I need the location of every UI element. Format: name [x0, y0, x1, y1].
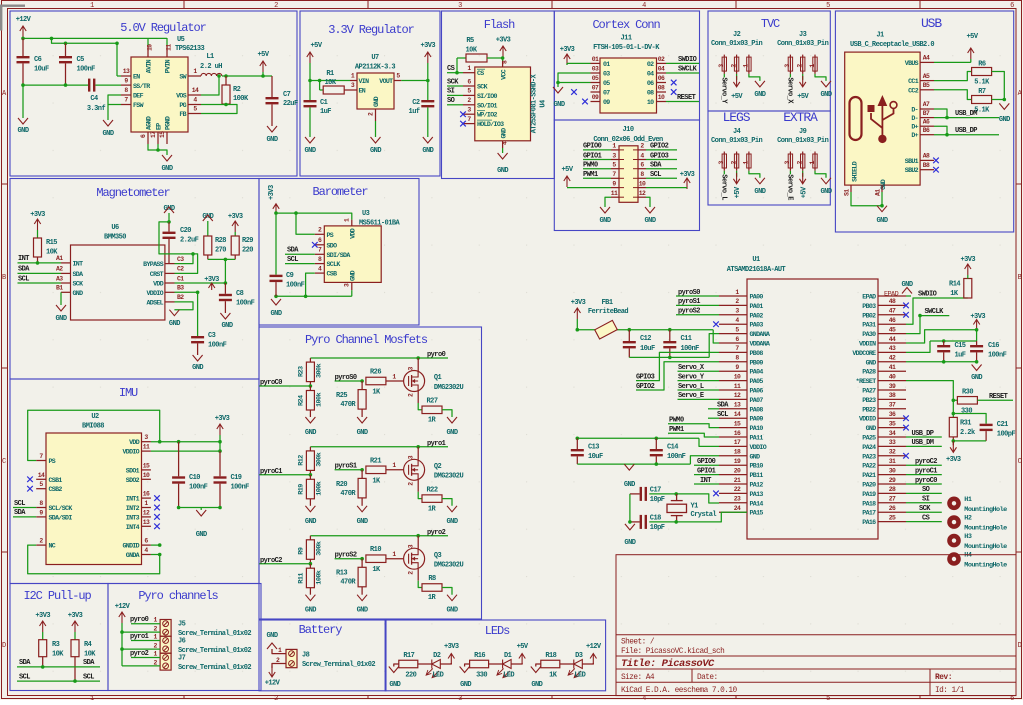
- svg-text:12: 12: [143, 509, 150, 516]
- svg-text:C13: C13: [588, 444, 599, 452]
- svg-text:C19: C19: [231, 474, 242, 482]
- junction VDDIN 3v3: [975, 328, 979, 332]
- svg-text:SWDIO: SWDIO: [918, 291, 937, 299]
- svg-text:Servo_E: Servo_E: [678, 392, 704, 400]
- junction R21 gate node: [360, 468, 364, 472]
- wire SI net: [447, 94, 463, 96]
- wire VDD rail imu: [151, 441, 220, 443]
- wire SDA net mag: [18, 272, 62, 274]
- svg-text:Servo_Y: Servo_Y: [678, 373, 705, 381]
- svg-text:SWCLK: SWCLK: [925, 308, 945, 316]
- svg-text:PA04: PA04: [750, 369, 764, 376]
- wire Servo net J3: [789, 74, 791, 78]
- resistor R13 470R: [361, 559, 363, 568]
- svg-text:R29: R29: [242, 237, 253, 245]
- pin 32 PA23 U1: [878, 455, 906, 457]
- svg-text:SDO2: SDO2: [126, 477, 140, 484]
- pin 42 GND U1: [878, 361, 906, 363]
- svg-text:16: 16: [143, 491, 150, 498]
- svg-text:GPIO0: GPIO0: [697, 458, 716, 466]
- section box I2C Pull-up: [10, 584, 108, 691]
- junction C20 top: [167, 220, 171, 224]
- wire PS branch: [296, 213, 315, 234]
- pin 34 PA25 U1: [878, 436, 906, 438]
- svg-text:06: 06: [647, 80, 654, 87]
- svg-text:GND: GND: [73, 290, 84, 297]
- svg-text:300k: 300k: [316, 452, 324, 467]
- resistor R31: [949, 417, 957, 437]
- svg-text:PA05: PA05: [750, 378, 764, 385]
- pin A5 CC1: [920, 80, 934, 82]
- transistor Q3 DMG2302U: [404, 548, 425, 569]
- pin 23 PA14 U1: [719, 502, 747, 504]
- pin 4 J10: [638, 159, 646, 161]
- wire xtal top to PA14 jog: [676, 494, 719, 503]
- svg-text:2.2 uH: 2.2 uH: [200, 63, 222, 71]
- capacitor C5: [65, 43, 67, 56]
- mounting hole H3: [947, 534, 961, 548]
- svg-text:+12V: +12V: [115, 603, 131, 611]
- wire U7 gnd: [375, 121, 377, 137]
- svg-text:R15: R15: [46, 239, 57, 247]
- wire +12V to J6 pin2: [122, 648, 160, 650]
- svg-text:Battery: Battery: [299, 623, 343, 637]
- svg-text:6: 6: [1010, 2, 1014, 10]
- ground GND imu caps: [196, 510, 206, 516]
- svg-text:15: 15: [159, 131, 166, 138]
- capacitor C17: [640, 487, 642, 501]
- svg-text:PA00: PA00: [750, 294, 764, 301]
- pin 7 FSW: [121, 104, 131, 106]
- IC U5 TPS62133: [131, 57, 188, 132]
- pin 37 PB22 U1: [878, 408, 906, 410]
- svg-text:2: 2: [274, 2, 278, 10]
- svg-text:AT25SF081-SSHD-X: AT25SF081-SSHD-X: [531, 73, 539, 133]
- wire GNDID GNDA join: [151, 544, 160, 546]
- svg-text:SS/TR: SS/TR: [133, 83, 150, 90]
- svg-text:+12V: +12V: [16, 16, 32, 24]
- svg-text:GND: GND: [866, 425, 877, 432]
- wire AVIN to rail: [147, 38, 149, 45]
- svg-text:R20: R20: [336, 481, 347, 489]
- wire GPIO0 J10: [583, 149, 611, 151]
- svg-text:PA12: PA12: [750, 482, 764, 489]
- svg-text:IMU: IMU: [119, 386, 138, 400]
- svg-text:INT2: INT2: [126, 505, 140, 512]
- svg-text:08: 08: [647, 90, 654, 97]
- wire VIN: [310, 80, 350, 82]
- svg-text:GNDA: GNDA: [126, 552, 140, 559]
- svg-text:GPIO2: GPIO2: [650, 143, 669, 151]
- svg-text:+5V: +5V: [258, 51, 270, 59]
- pin 11 J10: [611, 196, 619, 198]
- svg-text:PA19: PA19: [862, 491, 876, 498]
- svg-text:10K: 10K: [84, 651, 96, 659]
- power flag +5V D1: [519, 654, 525, 665]
- ground GND USB shield: [877, 206, 887, 212]
- pin 2 source Q1: [417, 391, 419, 403]
- svg-text:100pF: 100pF: [997, 431, 1016, 439]
- wire SCL i2c: [17, 680, 100, 682]
- svg-text:File: PicassoVC.kicad_sch: File: PicassoVC.kicad_sch: [621, 648, 724, 656]
- svg-text:GND: GND: [624, 481, 635, 489]
- wire R18 to D3: [560, 663, 574, 665]
- svg-text:10K: 10K: [52, 651, 64, 659]
- IC U7 AP2112K-3.3: [357, 73, 394, 109]
- wire R27 to gnd: [442, 410, 452, 417]
- wire PWM0 J10: [583, 168, 611, 170]
- svg-text:R5: R5: [466, 37, 474, 45]
- svg-text:SCL: SCL: [18, 275, 29, 283]
- ground GND J4: [749, 171, 760, 178]
- transistor Q2 DMG2302U: [404, 459, 425, 480]
- svg-text:pyroS0: pyroS0: [678, 289, 700, 297]
- svg-text:C15: C15: [955, 342, 966, 350]
- pin 17 VDDIO U1: [719, 445, 747, 447]
- pin 10 AVIN: [147, 45, 149, 57]
- svg-text:17: 17: [734, 439, 741, 446]
- svg-text:43: 43: [889, 345, 896, 352]
- wire gate to Q3: [386, 558, 403, 560]
- svg-text:EPAD: EPAD: [884, 291, 899, 299]
- svg-text:PGND: PGND: [165, 116, 172, 130]
- svg-text:10: 10: [639, 180, 646, 187]
- svg-text:TPS62133: TPS62133: [175, 45, 205, 53]
- svg-text:47: 47: [889, 308, 896, 315]
- svg-text:GND: GND: [531, 681, 542, 689]
- no-connect HOLD: [460, 121, 466, 127]
- svg-text:10: 10: [647, 99, 654, 106]
- svg-text:C3: C3: [177, 256, 184, 263]
- svg-text:+3V3: +3V3: [946, 456, 961, 464]
- svg-text:A3: A3: [56, 275, 63, 282]
- section box Pyro channels: [108, 584, 261, 691]
- pin C3 BYPASS: [165, 263, 175, 265]
- wire pyroC1 to PA21: [906, 474, 942, 476]
- svg-text:ADSEL: ADSEL: [146, 299, 163, 306]
- svg-text:U2: U2: [91, 413, 99, 421]
- svg-text:330: 330: [961, 408, 972, 416]
- wire DEF FSW to gnd: [108, 95, 121, 105]
- capacitor C14: [655, 438, 657, 449]
- svg-text:NC: NC: [49, 543, 56, 550]
- wire pyroS2 net: [335, 558, 363, 560]
- no-connect INT2: [154, 505, 160, 511]
- svg-text:PB09: PB09: [750, 359, 764, 366]
- svg-text:SDA: SDA: [717, 402, 729, 410]
- power +5V J2: [736, 74, 738, 80]
- pin 35 GND U1: [878, 427, 906, 429]
- svg-text:CRST: CRST: [150, 271, 164, 278]
- pin 8 DEF: [121, 94, 131, 96]
- capacitor C15: [943, 341, 945, 345]
- svg-text:GPIO1: GPIO1: [697, 467, 716, 475]
- svg-text:GND: GND: [754, 188, 765, 196]
- svg-text:3: 3: [458, 695, 462, 700]
- svg-text:09: 09: [592, 94, 599, 101]
- svg-text:14: 14: [192, 87, 199, 94]
- svg-text:GND: GND: [999, 116, 1010, 124]
- svg-text:SDO1: SDO1: [126, 467, 140, 474]
- pin 8 SCLK: [315, 263, 325, 265]
- svg-text:26: 26: [889, 505, 896, 512]
- wire +3V3 to pin10: [646, 187, 687, 189]
- pin 8 SCL/SCK IMU: [36, 507, 46, 509]
- svg-text:10uF: 10uF: [34, 66, 49, 74]
- svg-text:Servo_E: Servo_E: [786, 174, 794, 200]
- pin 06 J11: [657, 82, 667, 84]
- svg-text:15: 15: [734, 420, 741, 427]
- svg-text:46: 46: [889, 317, 896, 324]
- wire SCL net imu: [13, 507, 36, 509]
- connector J8 Screw_Terminal_01x02: [286, 649, 297, 667]
- wire CC2 to R7: [934, 90, 972, 100]
- svg-text:U1: U1: [752, 256, 760, 264]
- svg-text:D+: D+: [911, 132, 918, 139]
- pin 4 GNDA IMU: [142, 554, 151, 556]
- svg-text:PA31: PA31: [862, 322, 876, 329]
- ground GND under C6: [22, 85, 24, 118]
- svg-text:Y1: Y1: [691, 503, 699, 511]
- ground GND under R19: [305, 506, 315, 512]
- svg-text:GND: GND: [554, 101, 565, 109]
- svg-text:1: 1: [90, 2, 94, 10]
- pin 14 PA09 U1: [719, 417, 747, 419]
- pin 14 CSB1 IMU: [36, 478, 46, 480]
- wire SDA net imu: [13, 516, 36, 518]
- svg-text:+3V3: +3V3: [30, 211, 45, 219]
- svg-text:GPIO3: GPIO3: [636, 373, 655, 381]
- svg-text:+5V: +5V: [967, 33, 979, 41]
- svg-text:+3V3: +3V3: [970, 313, 985, 321]
- svg-text:GND: GND: [305, 147, 316, 155]
- no-connect PA13: [713, 491, 719, 497]
- svg-text:A2: A2: [56, 266, 63, 273]
- ground GND under R20: [357, 506, 367, 512]
- svg-text:SDA/SDI: SDA/SDI: [49, 514, 73, 521]
- pin 10 J10: [638, 187, 646, 189]
- pin 12 PA07 U1: [719, 398, 747, 400]
- junction Q2 drain: [416, 445, 420, 449]
- junction R9/R11: [309, 562, 313, 566]
- svg-text:SO: SO: [922, 486, 930, 494]
- svg-text:100nF: 100nF: [77, 66, 96, 74]
- junction C11 top: [668, 328, 672, 332]
- resistor R25 470R: [361, 381, 363, 390]
- section box TVC: [708, 11, 830, 111]
- svg-text:PB03: PB03: [862, 303, 876, 310]
- svg-text:100nF: 100nF: [667, 453, 686, 461]
- wire SCL to PA09: [708, 417, 719, 419]
- svg-text:45: 45: [889, 326, 896, 333]
- pin 1 PA00 U1: [719, 295, 747, 297]
- svg-text:C4: C4: [90, 95, 98, 103]
- ground symbol battery: [267, 643, 277, 649]
- svg-text:SBU2: SBU2: [905, 167, 919, 174]
- svg-text:C8: C8: [236, 290, 244, 298]
- wire VDDIO rail imu: [151, 450, 220, 452]
- svg-text:220: 220: [242, 247, 253, 255]
- ground GND under R24: [305, 417, 315, 423]
- capacitor C6: [22, 38, 24, 56]
- resistor R24 100k: [309, 386, 311, 391]
- svg-text:A6: A6: [923, 118, 930, 125]
- wire VDDIO to C3 cap: [197, 292, 199, 336]
- section box Barometer: [259, 179, 419, 326]
- svg-text:R3: R3: [52, 641, 60, 649]
- svg-text:SI/IO0: SI/IO0: [477, 93, 498, 100]
- svg-text:04: 04: [658, 66, 665, 73]
- svg-text:S1: S1: [844, 189, 851, 196]
- svg-text:D: D: [2, 642, 6, 650]
- svg-text:A5: A5: [923, 73, 930, 80]
- power flag +3V3 reset bottom: [950, 441, 956, 452]
- wire Servo net J4: [723, 171, 725, 175]
- wire rail second level: [52, 38, 118, 43]
- wire CS to PA16: [906, 521, 942, 523]
- svg-text:03: 03: [603, 71, 610, 78]
- svg-text:VDDCORE: VDDCORE: [852, 350, 876, 357]
- svg-text:VDDIO: VDDIO: [122, 449, 139, 456]
- svg-text:USB_DP: USB_DP: [955, 127, 977, 135]
- svg-text:B5: B5: [923, 82, 930, 89]
- wire CS net: [447, 72, 463, 74]
- ground GND under U4: [498, 153, 508, 159]
- pin B8 SBU2: [920, 169, 934, 171]
- junction VDD C8: [224, 281, 228, 285]
- power +5V J3: [802, 74, 804, 80]
- junction R12/R19: [309, 473, 313, 477]
- svg-text:+3V3: +3V3: [496, 37, 511, 45]
- svg-text:H3: H3: [964, 533, 972, 541]
- svg-text:SDA: SDA: [83, 659, 95, 667]
- pin 45 PA30 U1: [878, 333, 906, 335]
- svg-text:22: 22: [734, 486, 741, 493]
- svg-text:R24: R24: [298, 395, 306, 406]
- svg-text:PB02: PB02: [862, 312, 876, 319]
- capacitor C18: [640, 515, 642, 529]
- wire FB1 rail: [577, 329, 713, 331]
- svg-text:05: 05: [592, 75, 599, 82]
- svg-text:SCL/SCK: SCL/SCK: [49, 505, 73, 512]
- svg-text:R14: R14: [949, 281, 960, 289]
- svg-text:J8: J8: [302, 652, 310, 660]
- svg-text:RESET: RESET: [677, 94, 696, 102]
- svg-text:10uF: 10uF: [588, 453, 603, 461]
- pin 7 J10: [611, 177, 619, 179]
- svg-text:38: 38: [889, 392, 896, 399]
- pin 7 PB08 U1: [719, 351, 747, 353]
- resistor R19 100k: [309, 475, 311, 480]
- ground GND J10 right: [645, 207, 655, 213]
- svg-text:INT: INT: [18, 255, 29, 263]
- svg-text:13: 13: [734, 402, 741, 409]
- svg-text:C10: C10: [189, 474, 200, 482]
- pin 6 SDO baro: [315, 244, 325, 246]
- junction VOUT node: [426, 79, 430, 83]
- svg-text:SCLK: SCLK: [327, 261, 341, 268]
- svg-text:D-: D-: [911, 107, 918, 114]
- pin 13 PA08 U1: [719, 408, 747, 410]
- section box LEGS EXTRA: [708, 111, 830, 205]
- svg-text:GND: GND: [305, 429, 316, 437]
- svg-text:GND: GND: [56, 315, 67, 323]
- svg-text:SDI/SDA: SDI/SDA: [327, 252, 351, 259]
- svg-text:DMG2302U: DMG2302U: [434, 473, 464, 481]
- svg-text:CC1: CC1: [908, 78, 919, 85]
- ground GND under R25: [357, 417, 367, 423]
- pin A7 D-: [920, 108, 934, 110]
- pin 08 J11: [657, 91, 667, 93]
- pin EPAD EPAD U1: [878, 295, 906, 297]
- svg-text:SDA: SDA: [18, 266, 30, 274]
- svg-text:SCK: SCK: [477, 84, 488, 91]
- svg-text:Screw_Terminal_01x02: Screw_Terminal_01x02: [178, 647, 251, 655]
- pin 5 CSB2 IMU: [36, 488, 46, 490]
- svg-text:30: 30: [889, 467, 896, 474]
- svg-text:pyro0: pyro0: [130, 616, 149, 624]
- svg-text:C: C: [2, 458, 6, 466]
- wire C12 C11 gnd rail: [629, 356, 709, 358]
- section box Cortex Conn: [554, 11, 699, 120]
- wire pyro0 rail: [310, 357, 448, 359]
- no-connect INT4: [154, 524, 160, 530]
- svg-text:PA09: PA09: [750, 416, 764, 423]
- capacitor C12: [628, 330, 630, 341]
- svg-text:10pF: 10pF: [650, 524, 665, 532]
- svg-text:Q1: Q1: [434, 374, 442, 382]
- pin A8 SBU1: [920, 159, 934, 161]
- wire pyroC1 net: [259, 474, 310, 476]
- wire gate to Q2: [386, 469, 403, 471]
- wire PG to R2 bottom: [201, 104, 226, 106]
- wire GND row42 rail: [906, 361, 977, 363]
- wire Servo_L to PA06: [678, 389, 720, 391]
- power flag +5V USB: [968, 48, 974, 59]
- no-connect INT3: [154, 514, 160, 520]
- capacitor C16: [976, 341, 978, 345]
- capacitor C19: [219, 451, 221, 476]
- svg-text:SDA: SDA: [287, 247, 299, 255]
- svg-text:pyro2: pyro2: [427, 529, 446, 537]
- pin 9 SDA/SDI IMU: [36, 516, 46, 518]
- svg-text:VBUS: VBUS: [905, 60, 919, 67]
- svg-text:10: 10: [734, 373, 741, 380]
- resistor R11 100k: [309, 564, 311, 569]
- svg-text:C2: C2: [177, 266, 184, 273]
- svg-text:Screw_Terminal_01x02: Screw_Terminal_01x02: [178, 630, 251, 638]
- svg-text:27: 27: [889, 496, 896, 503]
- pin B2 ADSEL: [165, 301, 175, 303]
- svg-text:SWCLK: SWCLK: [678, 66, 698, 74]
- svg-text:GPIO3: GPIO3: [650, 152, 669, 160]
- power flag +12V D3: [590, 654, 596, 665]
- resistor R3: [39, 640, 47, 657]
- svg-text:C20: C20: [180, 227, 191, 235]
- ground GND under C8: [220, 313, 230, 319]
- usb logo trident: [871, 104, 894, 136]
- svg-text:R28: R28: [215, 237, 226, 245]
- svg-text:R11: R11: [298, 573, 306, 584]
- svg-text:MountingHole: MountingHole: [964, 562, 1007, 570]
- pin 1 SW: [188, 75, 201, 77]
- wire SDA net baro: [285, 253, 315, 255]
- svg-text:A1: A1: [56, 255, 63, 262]
- pin 16 INT1 IMU: [142, 497, 151, 499]
- section box 5.0V Regulator: [10, 11, 297, 176]
- pin 9 PA04 U1: [719, 370, 747, 372]
- wire C21 to R31 bottom: [953, 440, 986, 442]
